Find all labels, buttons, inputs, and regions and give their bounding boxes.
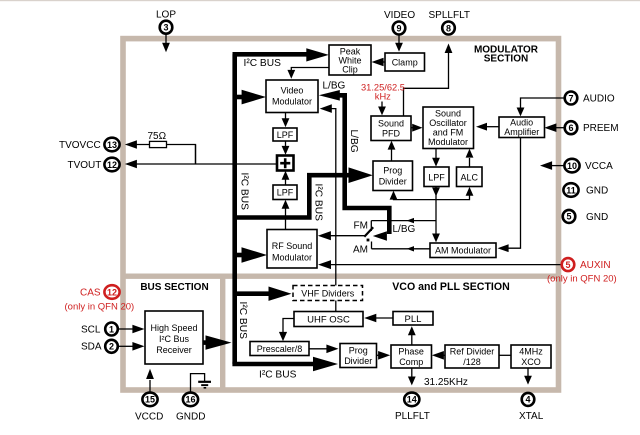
svg-text:I²C BUS: I²C BUS	[237, 302, 248, 340]
svg-text:SCL: SCL	[81, 324, 101, 335]
wire Prog Divider up to Sound PFD	[388, 141, 396, 161]
pin SDA 2	[81, 340, 145, 353]
pin VCCD 15	[135, 369, 163, 423]
section divider horizontal	[121, 274, 558, 279]
svg-text:L/BG: L/BG	[323, 81, 346, 92]
block Ref Divider /128	[445, 345, 499, 368]
svg-text:Clip: Clip	[342, 65, 358, 75]
svg-text:5: 5	[566, 212, 571, 222]
svg-text:GND: GND	[586, 186, 608, 197]
wire Prescaler to Prog Divider	[309, 345, 339, 354]
svg-text:LPF: LPF	[277, 130, 294, 140]
block Clamp	[385, 53, 425, 71]
svg-text:Divider: Divider	[344, 356, 372, 366]
svg-text:I²C BUS: I²C BUS	[239, 173, 250, 211]
svg-text:XTAL: XTAL	[519, 411, 544, 422]
svg-text:VCCD: VCCD	[135, 412, 163, 423]
svg-text:RF Sound: RF Sound	[272, 241, 313, 251]
wire Prog Divider to Phase Comp	[376, 351, 390, 360]
block AM Modulator	[430, 243, 496, 258]
svg-text:12: 12	[107, 287, 117, 297]
svg-text:LOP: LOP	[156, 10, 176, 21]
svg-text:31.25KHz: 31.25KHz	[424, 377, 468, 388]
wire Ref Divider to Phase Comp	[432, 351, 445, 360]
wire Audio Amplifier down to AM Modulator	[498, 137, 521, 252]
pin AUXIN 5 (red)	[318, 258, 617, 284]
big arrow into Video Modulator	[235, 90, 266, 105]
svg-text:PLL: PLL	[405, 314, 422, 325]
thick arrow Receiver output to bus	[203, 335, 232, 349]
block Prescaler/8	[250, 342, 309, 356]
svg-text:16: 16	[185, 395, 195, 405]
svg-text:AUDIO: AUDIO	[583, 94, 615, 105]
block Sound PFD	[371, 116, 411, 141]
I2C bus thick bottom horizontal wire	[235, 364, 314, 366]
pin GND 11	[563, 183, 608, 197]
adder (plus)	[277, 156, 294, 171]
pin XTAL 4	[519, 369, 544, 423]
I2C bus thick main vertical wire	[232, 54, 237, 364]
svg-text:15: 15	[145, 395, 155, 405]
svg-text:Modulator: Modulator	[428, 137, 468, 147]
svg-text:Phase: Phase	[398, 347, 424, 357]
svg-text:(only in QFN 20): (only in QFN 20)	[547, 274, 617, 285]
wire PLL to UHF OSC	[364, 314, 393, 323]
svg-text:Sound: Sound	[378, 119, 404, 129]
svg-text:Video: Video	[281, 86, 304, 96]
svg-text:LPF: LPF	[428, 173, 445, 183]
svg-text:Prog: Prog	[349, 346, 368, 356]
pin SCL 1	[81, 323, 145, 336]
wire XCO to Ref Divider	[499, 354, 511, 356]
block Video Modulator	[266, 80, 318, 113]
svg-text:FM: FM	[354, 221, 368, 232]
svg-text:I²C BUS: I²C BUS	[259, 370, 297, 381]
svg-text:ALC: ALC	[460, 173, 478, 183]
pin VCCA 10	[540, 159, 613, 173]
svg-text:I²C BUS: I²C BUS	[244, 58, 282, 69]
svg-text:AUXIN: AUXIN	[580, 260, 611, 271]
svg-text:TVOUT: TVOUT	[68, 160, 102, 171]
pin LOP 3	[156, 10, 176, 53]
big arrow into Prog Divider	[349, 167, 373, 183]
I2C bus thick Z-branch wire to Prog Divider	[233, 175, 350, 217]
svg-text:I²C Bus: I²C Bus	[159, 334, 190, 344]
svg-text:9: 9	[396, 23, 401, 33]
block VHF Dividers (dashed)	[293, 286, 363, 301]
svg-text:2: 2	[109, 342, 114, 352]
svg-text:kHz: kHz	[375, 91, 391, 101]
section divider vertical (bus/vco)	[220, 276, 225, 390]
svg-text:VCO and PLL SECTION: VCO and PLL SECTION	[392, 281, 510, 293]
svg-text:Audio: Audio	[510, 118, 533, 128]
wire Audio Amplifier to Sound Oscillator	[476, 123, 499, 131]
svg-text:PFD: PFD	[382, 129, 401, 139]
pin PREEM 6	[544, 121, 618, 134]
wire net to Prog Divider and ALC bottoms	[390, 187, 474, 200]
block Peak White Clip	[329, 45, 371, 75]
wire FM branch to switch	[371, 218, 436, 223]
pin TVOVCC 13	[59, 138, 150, 152]
svg-text:CAS: CAS	[80, 287, 101, 298]
svg-text:5: 5	[565, 260, 570, 270]
block UHF OSC	[294, 312, 363, 327]
wire Clamp to Peak White Clip	[372, 58, 386, 67]
svg-text:BUS SECTION: BUS SECTION	[140, 282, 208, 293]
svg-text:GND: GND	[586, 212, 608, 223]
svg-text:Prescaler/8: Prescaler/8	[257, 344, 303, 354]
svg-text:VIDEO: VIDEO	[384, 10, 415, 21]
block Phase Comp	[391, 345, 432, 368]
wire ALC up to Sound Oscillator	[466, 149, 474, 167]
big arrow into Video Modulator right	[319, 90, 340, 101]
svg-text:LPF: LPF	[277, 188, 294, 198]
svg-text:11: 11	[566, 185, 576, 195]
wire adder output to TVOUT (junction)	[195, 145, 197, 165]
block Audio Amplifier	[499, 117, 545, 138]
wire Phase Comp up to PLL	[408, 326, 416, 345]
block Sound Oscillator and FM Modulator	[423, 107, 474, 149]
pin SPLLFLT 8	[404, 10, 471, 116]
wire switch common to RF Sound Modulator	[318, 231, 365, 240]
svg-text:10: 10	[567, 161, 577, 171]
svg-text:6: 6	[568, 123, 573, 133]
wire LPF2 up to adder	[282, 171, 290, 185]
wire LPF3 output net down to AM Modulator	[432, 186, 440, 242]
svg-text:75Ω: 75Ω	[148, 131, 167, 142]
svg-text:Clamp: Clamp	[392, 58, 418, 68]
L/BG thick control wire	[339, 95, 389, 234]
svg-text:Modulator: Modulator	[272, 97, 312, 107]
svg-text:13: 13	[107, 140, 117, 150]
big arrow into RF Sound Modulator	[235, 247, 267, 263]
block 4MHz XCO	[511, 345, 551, 368]
svg-text:and FM: and FM	[433, 128, 464, 138]
svg-text:I²C BUS: I²C BUS	[313, 184, 324, 222]
svg-text:/128: /128	[463, 357, 481, 367]
svg-text:Ref Divider: Ref Divider	[450, 347, 495, 357]
svg-text:VCCA: VCCA	[585, 161, 613, 172]
block LPF2	[273, 185, 297, 200]
wire AM Modulator to switch AM contact	[372, 246, 431, 251]
FM/AM switch	[353, 221, 373, 256]
wire UHF OSC to Prescaler	[279, 319, 294, 342]
svg-text:SPLLFLT: SPLLFLT	[429, 10, 471, 21]
svg-text:4MHz: 4MHz	[519, 347, 543, 357]
big arrow into VHF Dividers	[235, 287, 292, 301]
wire UHF OSC carrier up to Video Modulator	[320, 104, 336, 312]
block ALC	[457, 167, 483, 187]
svg-text:Amplifier: Amplifier	[504, 127, 539, 137]
block PLL	[393, 312, 433, 326]
block Prog Divider (sound)	[373, 161, 413, 191]
svg-text:1: 1	[109, 324, 114, 334]
block High Speed I2C Bus Receiver	[145, 311, 203, 364]
svg-text:3: 3	[163, 23, 168, 33]
svg-text:8: 8	[446, 23, 451, 33]
svg-text:Comp: Comp	[399, 357, 423, 367]
resistor 75ohm	[148, 131, 196, 164]
wire Peak White Clip output to Video Modulator	[287, 68, 329, 79]
chip outline frame (tan)	[121, 39, 559, 390]
pin VIDEO 9	[384, 10, 415, 52]
svg-text:L/BG: L/BG	[393, 224, 416, 235]
svg-text:14: 14	[407, 395, 417, 405]
svg-text:7: 7	[568, 93, 573, 103]
svg-text:TVOVCC: TVOVCC	[59, 140, 101, 151]
big arrow into FM/AM switch	[373, 231, 387, 241]
svg-text:AM: AM	[353, 245, 368, 256]
block RF Sound Modulator	[267, 230, 317, 269]
svg-text:SECTION: SECTION	[484, 54, 528, 65]
page top edge line	[0, 0, 640, 1]
31.25/62.5 kHz reference arrow (red label)	[361, 82, 405, 115]
svg-text:Oscillator: Oscillator	[429, 118, 467, 128]
block Prog Divider (PLL)	[340, 344, 377, 368]
svg-text:VHF Dividers: VHF Dividers	[301, 289, 355, 299]
svg-text:SDA: SDA	[81, 342, 102, 353]
svg-text:GNDD: GNDD	[176, 412, 205, 423]
heading MODULATOR SECTION	[474, 44, 539, 64]
svg-text:Receiver: Receiver	[156, 345, 192, 355]
svg-text:Divider: Divider	[379, 177, 407, 187]
pin GND 5	[563, 210, 609, 223]
wire Sound PFD to Sound Oscillator	[411, 124, 423, 132]
svg-text:Sound: Sound	[435, 109, 461, 119]
pin PLLFLT 14	[395, 369, 430, 423]
svg-text:High Speed: High Speed	[150, 323, 197, 333]
pin CAS 12 (red)	[65, 285, 135, 312]
wire LPF1 to adder	[282, 141, 290, 155]
svg-text:(only in QFN 20): (only in QFN 20)	[65, 302, 135, 313]
svg-text:L/BG: L/BG	[348, 130, 359, 153]
big arrow into Peak White Clip	[306, 48, 329, 61]
big arrow into PLL Prog Divider	[313, 357, 338, 371]
pin AUDIO 7	[517, 92, 615, 117]
wire RF Sound Modulator up to LPF2	[282, 200, 290, 230]
block LPF1	[273, 128, 297, 141]
svg-text:AM Modulator: AM Modulator	[435, 246, 491, 256]
pin GNDD 16 and ground symbol	[176, 374, 211, 423]
svg-text:PLLFLT: PLLFLT	[395, 411, 430, 422]
block LPF3	[424, 167, 449, 187]
wire Video Modulator to LPF1	[282, 113, 290, 128]
I2C bus thick top horizontal wire to Peak White Clip	[233, 52, 308, 57]
svg-text:PREEM: PREEM	[583, 123, 619, 134]
pin TVOUT 12	[68, 158, 278, 172]
svg-text:XCO: XCO	[521, 357, 541, 367]
svg-text:Modulator: Modulator	[272, 253, 312, 263]
svg-text:4: 4	[525, 395, 530, 405]
svg-text:Prog: Prog	[383, 166, 402, 176]
svg-text:UHF OSC: UHF OSC	[307, 315, 350, 326]
wire Sound Oscillator to LPF3	[432, 149, 440, 167]
svg-text:12: 12	[107, 160, 117, 170]
